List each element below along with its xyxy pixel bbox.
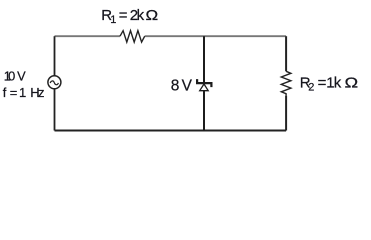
- svg-text:Ω: Ω: [146, 8, 159, 24]
- svg-text:8V: 8V: [171, 77, 193, 94]
- svg-text:R2=1k: R2=1k: [300, 74, 342, 93]
- svg-text:R1=2k: R1=2k: [101, 7, 144, 26]
- svg-text:10V: 10V: [4, 69, 26, 84]
- svg-text:f=1Hz: f=1Hz: [3, 85, 45, 100]
- svg-text:Ω: Ω: [345, 74, 359, 91]
